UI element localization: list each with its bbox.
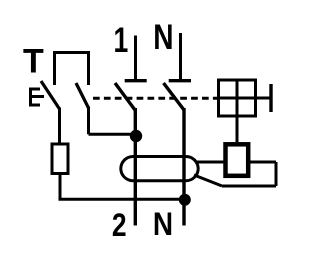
terminal N lead bbox=[179, 33, 182, 80]
manual operating knob bar bbox=[269, 84, 272, 112]
wire: resistor to N junction bbox=[59, 174, 185, 200]
terminal 1 lead bbox=[134, 36, 137, 81]
junction node on conductor N bbox=[179, 194, 191, 206]
link: mechanism to trip coil bbox=[236, 116, 239, 142]
terminal 1 fixed contact bar bbox=[125, 79, 147, 82]
wire: coil return to CT secondary bbox=[194, 162, 276, 186]
wire: CT secondary to coil bbox=[195, 161, 225, 164]
mechanical linkage (dashed) bbox=[93, 97, 218, 100]
test push-button actuator bbox=[29, 88, 44, 107]
wire: aux contact to conductor-1 junction bbox=[89, 107, 137, 135]
trip coil (solenoid) bbox=[226, 144, 249, 176]
conductor N (pole N to bottom terminal N) bbox=[182, 108, 185, 226]
pole 1 contact blade bbox=[115, 83, 135, 110]
svg-text:T: T bbox=[23, 43, 44, 81]
trip mechanism box bbox=[219, 80, 256, 116]
toroidal current transformer bbox=[121, 157, 198, 181]
svg-text:N: N bbox=[153, 17, 173, 57]
test circuit bridge wire (over poles) bbox=[55, 53, 89, 86]
wire: test contact to resistor bbox=[58, 108, 61, 146]
test contact blade (switch T) bbox=[41, 81, 60, 109]
wire: mechanism to manual knob bbox=[256, 97, 270, 100]
svg-text:1: 1 bbox=[114, 20, 129, 60]
svg-text:2: 2 bbox=[112, 207, 127, 243]
pole N contact blade bbox=[164, 83, 185, 110]
svg-text:N: N bbox=[153, 207, 173, 242]
junction node on conductor 1 bbox=[130, 130, 142, 142]
terminal N fixed contact bar bbox=[169, 79, 191, 82]
auxiliary contact blade (linkage) bbox=[76, 83, 89, 108]
resistor R (test resistor) bbox=[52, 144, 68, 174]
conductor 1 (pole 1 to terminal 2) bbox=[134, 108, 137, 226]
